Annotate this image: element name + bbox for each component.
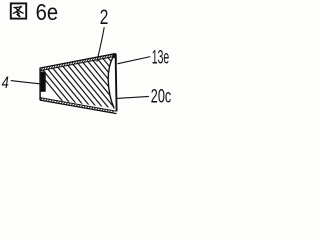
concave inner face (element 13e) bbox=[108, 55, 114, 109]
svg-text:2: 2 bbox=[100, 6, 109, 29]
black insert strip (element 4) bbox=[41, 72, 46, 92]
leader line from 4 to black insert bbox=[11, 81, 40, 84]
svg-text:13e: 13e bbox=[152, 47, 169, 68]
caption: Chinese character TU (figure) drawn as strokes bbox=[11, 3, 26, 18]
svg-text:4: 4 bbox=[2, 73, 9, 92]
leader line from 13e to inner concave face bbox=[117, 57, 150, 64]
svg-text:6e: 6e bbox=[36, 0, 59, 25]
left end face bbox=[39, 68, 41, 101]
bottom wall edge (double line with ticks) bbox=[40, 98, 117, 114]
top wall edge (double line with ticks) bbox=[40, 54, 115, 71]
outer right edge (element 20c) bbox=[116, 54, 117, 112]
section hatching of wedge body bbox=[14, 42, 180, 118]
svg-text:20c: 20c bbox=[151, 87, 171, 108]
junction of top wall, inner face and right edge bbox=[112, 54, 117, 63]
leader line from 20c to outer right edge bbox=[117, 96, 149, 98]
leader line from 2 to top wall bbox=[97, 27, 104, 61]
